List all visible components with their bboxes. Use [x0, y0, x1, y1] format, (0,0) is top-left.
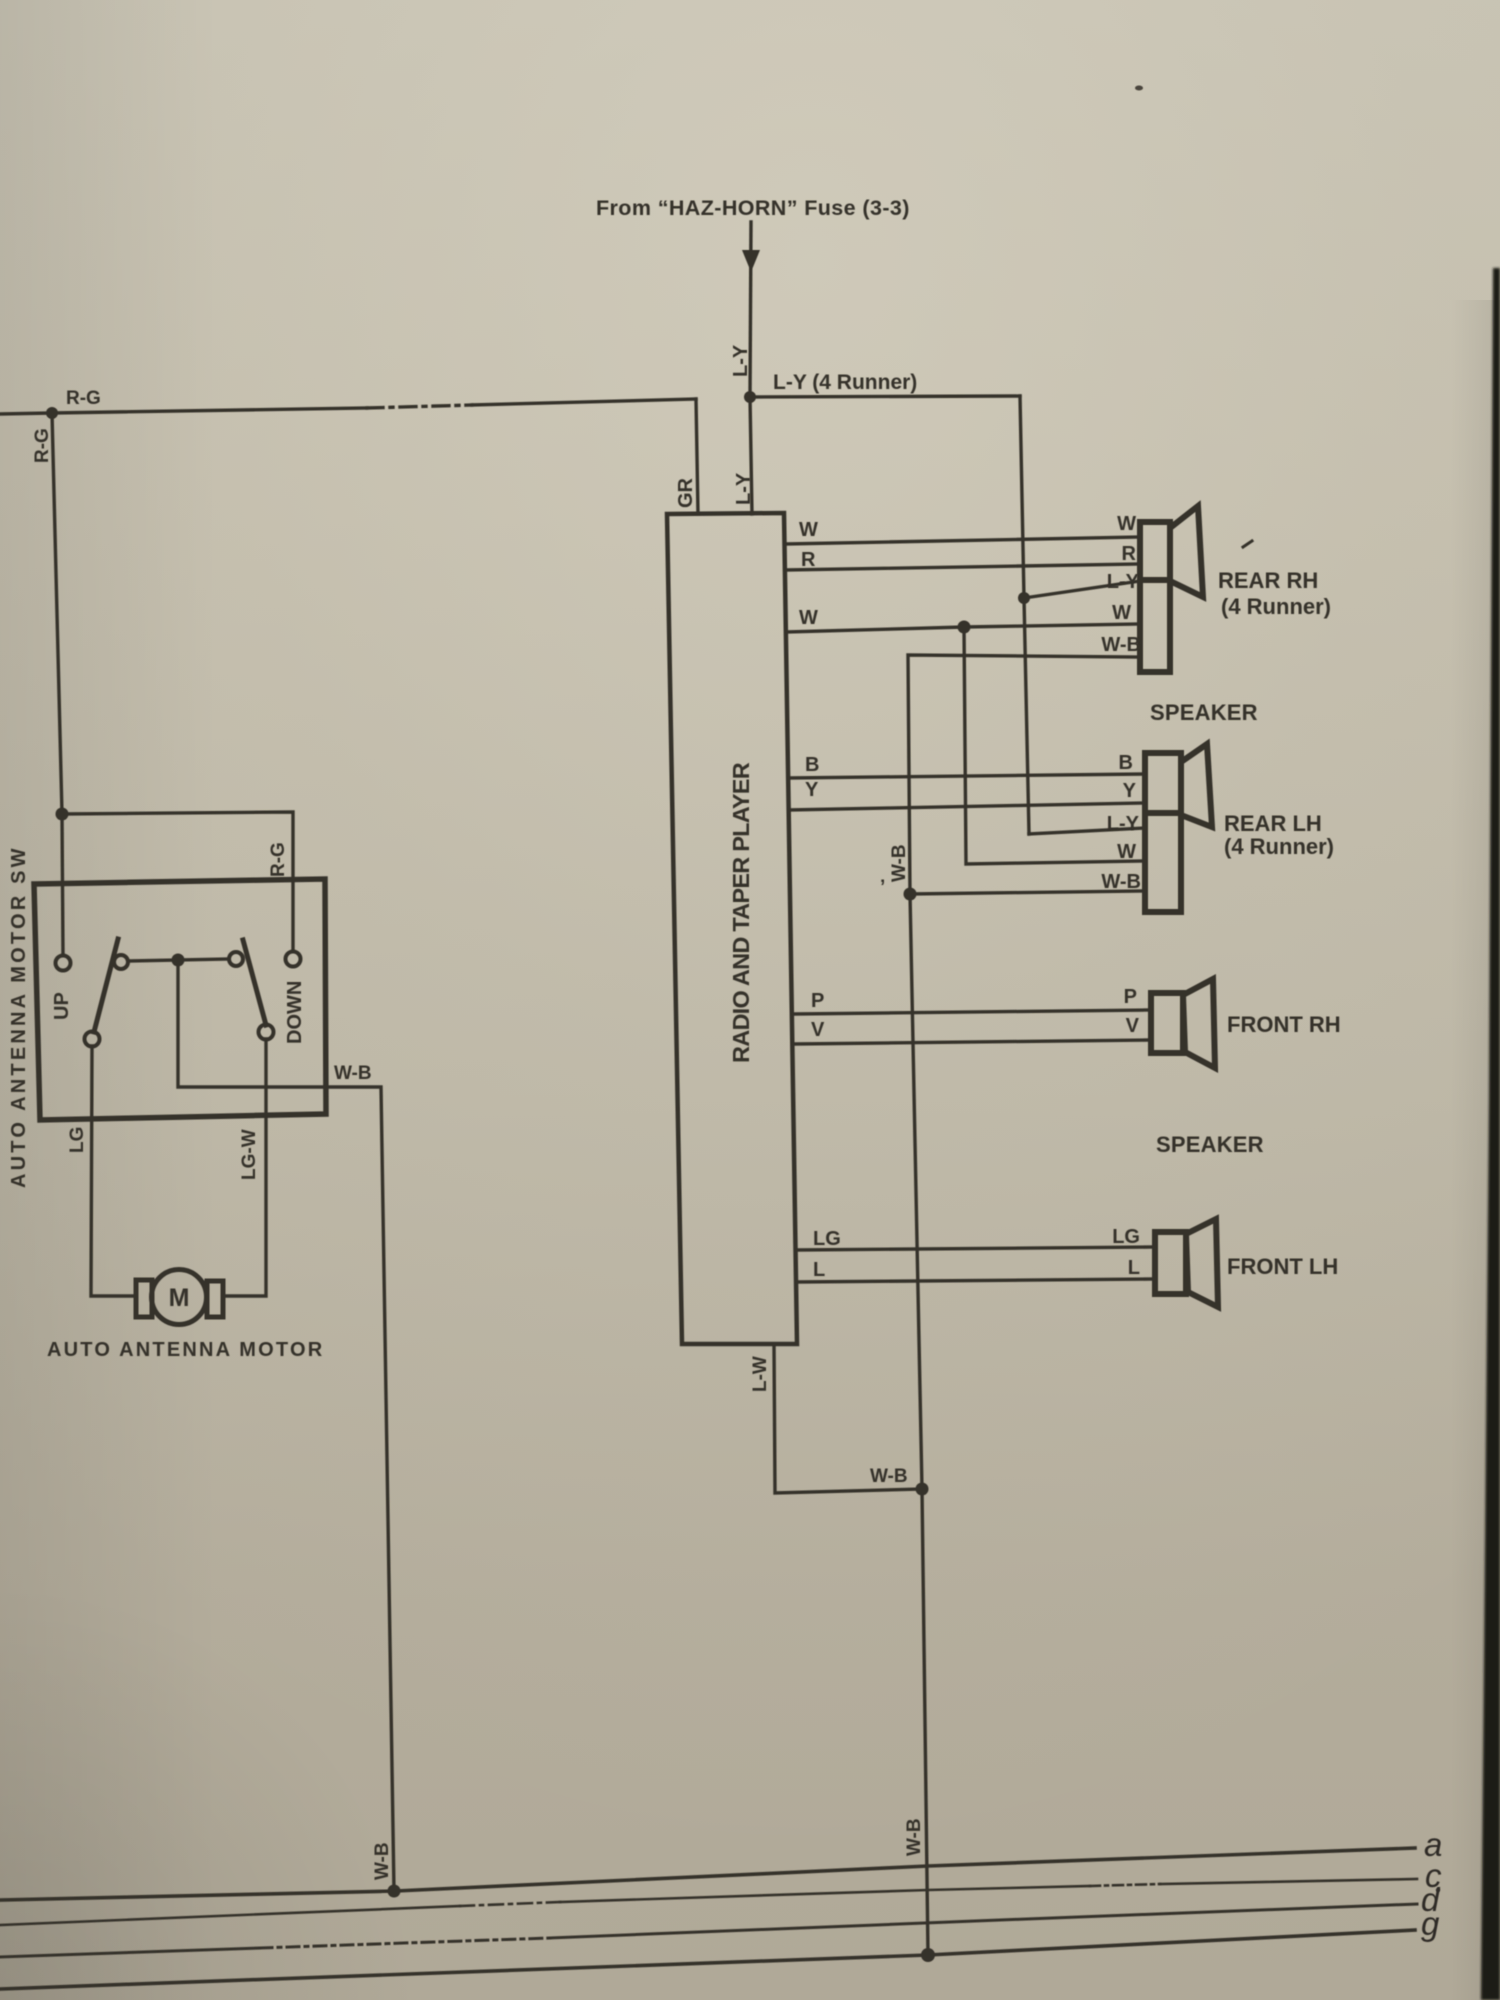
- wire R-G branch over to DOWN terminal: [62, 812, 293, 951]
- svg-text:L-Y: L-Y: [1107, 571, 1140, 593]
- svg-text:W: W: [1117, 841, 1136, 863]
- bus line d: [0, 1948, 260, 1957]
- svg-text:W: W: [799, 607, 818, 629]
- contact circle right: [229, 952, 243, 966]
- svg-text:LG: LG: [67, 1127, 88, 1153]
- wire from HAZ-HORN fuse (vertical drop): [750, 222, 751, 397]
- svg-text:W: W: [1112, 602, 1131, 624]
- svg-text:REAR LH: REAR LH: [1224, 811, 1322, 836]
- wire W-B to REAR LH: [910, 891, 1145, 894]
- terminal UP: [56, 956, 71, 971]
- svg-text:R-G: R-G: [66, 388, 101, 409]
- wire GR drop into radio: [696, 399, 698, 514]
- svg-text:(4 Runner): (4 Runner): [1221, 594, 1331, 619]
- wire L radio to FRONT LH: [797, 1279, 1155, 1282]
- svg-text:L: L: [1128, 1257, 1140, 1279]
- speaker REAR RH symbol: [1140, 506, 1203, 672]
- speaker REAR LH symbol: [1145, 744, 1212, 912]
- svg-text:V: V: [811, 1019, 825, 1041]
- speck near letter d: [1436, 1888, 1440, 1892]
- wire R-G dash-dot section: [367, 405, 472, 408]
- svg-text:L-Y: L-Y: [1107, 813, 1140, 835]
- svg-text:W: W: [1117, 513, 1136, 535]
- motor brush left: [136, 1280, 152, 1317]
- wire Y radio to REAR LH: [789, 803, 1145, 810]
- node W-B junction: [904, 888, 917, 901]
- contact circle lower right: [259, 1025, 274, 1040]
- wire L-Y (4 Runner) horizontal branch: [750, 396, 1020, 397]
- speck top right: [1135, 86, 1143, 91]
- svg-text:Y: Y: [1123, 780, 1137, 802]
- speaker FRONT LH symbol: [1155, 1219, 1218, 1307]
- svg-text:V: V: [1126, 1015, 1140, 1037]
- contact bar between poles: [129, 959, 229, 961]
- svg-text:From “HAZ-HORN” Fuse (3-3): From “HAZ-HORN” Fuse (3-3): [596, 196, 910, 220]
- wire LG from switch to motor: [91, 1046, 136, 1296]
- node W-B meets L-W: [916, 1483, 929, 1496]
- svg-text:R-G: R-G: [268, 842, 289, 877]
- svg-text:AUTO ANTENNA MOTOR: AUTO ANTENNA MOTOR: [47, 1339, 324, 1361]
- wire L-Y branch to REAR RH speaker: [1024, 581, 1140, 598]
- svg-text:L-W: L-W: [750, 1356, 771, 1392]
- wire R-G to UP terminal: [62, 814, 63, 955]
- svg-text:RADIO AND TAPER PLAYER: RADIO AND TAPER PLAYER: [728, 762, 754, 1063]
- svg-text:’: ’: [880, 877, 885, 898]
- wire LG-W from switch to motor: [223, 1039, 266, 1296]
- motor brush right: [207, 1281, 223, 1317]
- svg-text:LG: LG: [1112, 1226, 1140, 1248]
- svg-text:AUTO ANTENNA MOTOR SW: AUTO ANTENNA MOTOR SW: [8, 845, 30, 1188]
- bus letters a c d g: [1421, 1826, 1442, 1942]
- wire P radio to FRONT RH: [795, 1010, 1151, 1014]
- svg-text:FRONT LH: FRONT LH: [1227, 1254, 1338, 1279]
- wire R-G to GR corner: [472, 399, 696, 405]
- svg-text:L-Y (4 Runner): L-Y (4 Runner): [773, 371, 917, 394]
- svg-text:W-B: W-B: [904, 1818, 925, 1856]
- svg-text:R: R: [1122, 543, 1137, 565]
- svg-text:W-B: W-B: [334, 1063, 372, 1084]
- svg-text:DOWN: DOWN: [284, 981, 306, 1044]
- svg-text:UP: UP: [51, 992, 73, 1020]
- svg-text:GR: GR: [675, 477, 697, 508]
- node R-G at left: [46, 407, 58, 419]
- svg-text:W-B: W-B: [870, 1466, 908, 1487]
- svg-text:g: g: [1421, 1905, 1440, 1942]
- artifact tick near REAR RH: [1243, 541, 1252, 547]
- wire LG radio to FRONT LH: [797, 1247, 1155, 1250]
- terminal DOWN: [286, 952, 301, 967]
- speaker FRONT RH symbol: [1151, 979, 1215, 1068]
- wire L-Y branch to REAR LH speaker: [1029, 828, 1145, 834]
- svg-text:W-B: W-B: [889, 844, 910, 882]
- svg-text:L-Y: L-Y: [730, 344, 752, 377]
- wire W radio to speakers (with node): [787, 624, 1140, 632]
- switch blade right: [243, 940, 266, 1025]
- wire L-W from radio bottom: [774, 1344, 922, 1493]
- wire W-B vertical down page: [910, 894, 928, 1955]
- svg-text:B: B: [1119, 752, 1133, 774]
- switch blade left: [94, 939, 118, 1032]
- wire R-G vertical down to switch: [52, 413, 62, 814]
- node switch common: [172, 954, 185, 967]
- page right dark edge: [1450, 300, 1500, 2000]
- svg-text:Y: Y: [805, 779, 819, 801]
- svg-text:R-G: R-G: [32, 428, 53, 463]
- node W-B on bus g: [921, 1948, 935, 1962]
- radio and taper player box: [667, 513, 797, 1344]
- node L-Y junction at fuse feed: [744, 391, 756, 403]
- svg-text:REAR RH: REAR RH: [1218, 568, 1318, 593]
- bus line g: [0, 1930, 1415, 1989]
- svg-text:M: M: [169, 1284, 190, 1312]
- arrowhead on fuse feed wire: [742, 250, 760, 272]
- svg-text:L-Y: L-Y: [733, 472, 755, 505]
- svg-text:LG: LG: [813, 1228, 841, 1250]
- wire R-G horizontal from left edge: [0, 408, 367, 414]
- svg-text:P: P: [811, 990, 824, 1012]
- svg-text:P: P: [1124, 986, 1137, 1008]
- svg-text:SPEAKER: SPEAKER: [1150, 700, 1258, 725]
- svg-text:W-B: W-B: [1101, 634, 1141, 656]
- svg-text:R: R: [801, 549, 816, 571]
- wire B radio to REAR LH: [789, 774, 1145, 778]
- svg-text:L: L: [813, 1259, 825, 1281]
- contact circle left: [114, 955, 128, 969]
- switch box AUTO ANTENNA MOTOR SW: [34, 879, 326, 1120]
- node W branch: [958, 621, 971, 634]
- node L-Y to REAR RH speaker: [1018, 592, 1030, 604]
- wire W radio to REAR RH: [786, 537, 1140, 544]
- svg-text:W-B: W-B: [1101, 871, 1141, 893]
- svg-text:W-B: W-B: [372, 1842, 393, 1880]
- wire V radio to FRONT RH: [795, 1040, 1151, 1044]
- wire L-Y (4 Runner) vertical run: [1020, 396, 1029, 834]
- motor M body: [152, 1270, 207, 1325]
- svg-text:SPEAKER: SPEAKER: [1156, 1132, 1264, 1157]
- node W-B on bus a: [388, 1885, 401, 1898]
- node R-G above switch: [56, 808, 69, 821]
- contact circle lower left: [85, 1032, 100, 1047]
- wire L-Y from node into radio: [750, 397, 752, 514]
- wire switch common pole W-B: [178, 960, 394, 1891]
- svg-text:LG-W: LG-W: [239, 1129, 260, 1180]
- wire W branch down to REAR LH: [964, 627, 1145, 864]
- bus line a: [0, 1848, 1415, 1900]
- svg-text:B: B: [805, 754, 819, 776]
- wire W-B from REAR RH: [908, 655, 1140, 894]
- bus line c: [0, 1906, 460, 1925]
- wire R radio to REAR RH: [786, 564, 1140, 570]
- svg-text:FRONT RH: FRONT RH: [1227, 1012, 1341, 1037]
- svg-text:(4 Runner): (4 Runner): [1224, 834, 1334, 859]
- svg-text:W: W: [799, 519, 818, 541]
